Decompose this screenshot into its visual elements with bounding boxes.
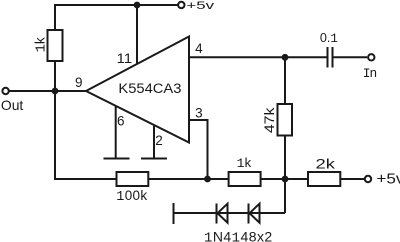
svg-text:3: 3	[195, 106, 203, 121]
svg-text:K554CA3: K554CA3	[118, 81, 181, 96]
svg-text:4: 4	[195, 41, 203, 56]
svg-text:In: In	[363, 65, 377, 81]
svg-text:2k: 2k	[316, 156, 336, 171]
svg-text:+5v: +5v	[186, 0, 214, 12]
svg-text:100k: 100k	[116, 188, 147, 205]
svg-text:0.1: 0.1	[320, 31, 338, 46]
svg-text:1k: 1k	[237, 155, 252, 171]
svg-text:11: 11	[117, 51, 132, 66]
svg-text:1N4148x2: 1N4148x2	[204, 229, 273, 242]
svg-text:47k: 47k	[262, 107, 277, 133]
svg-text:2: 2	[155, 133, 163, 148]
svg-text:9: 9	[75, 75, 83, 90]
svg-text:1k: 1k	[33, 37, 50, 52]
svg-text:Out: Out	[1, 97, 24, 113]
svg-text:6: 6	[117, 114, 125, 129]
svg-text:+5v: +5v	[376, 171, 400, 187]
